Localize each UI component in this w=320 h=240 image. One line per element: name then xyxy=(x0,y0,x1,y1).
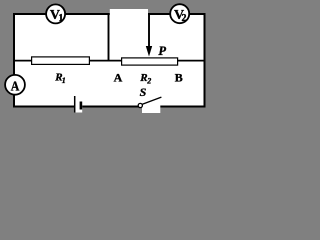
svg-text:S: S xyxy=(140,85,147,99)
ammeter A xyxy=(5,75,25,95)
svg-text:1: 1 xyxy=(58,13,63,24)
svg-text:A: A xyxy=(114,70,123,84)
svg-text:2: 2 xyxy=(146,76,151,85)
voltmeter V1 xyxy=(46,4,65,24)
white gap notch over top wire (potentiometer branch opening) xyxy=(110,9,148,19)
label R2 xyxy=(139,72,151,86)
svg-text:A: A xyxy=(11,79,20,94)
circuit loop (outer wire rectangle, white interior) xyxy=(14,14,205,107)
svg-text:2: 2 xyxy=(182,13,187,24)
potentiometer wiper arrow P xyxy=(146,13,152,57)
switch S xyxy=(138,97,161,113)
svg-text:1: 1 xyxy=(62,76,66,85)
svg-text:B: B xyxy=(175,70,183,84)
battery (cell on bottom wire) xyxy=(74,96,82,113)
svg-text:P: P xyxy=(158,44,166,58)
potentiometer track R2 xyxy=(122,58,178,65)
wire: riser from top-left branch down to node A xyxy=(108,13,110,61)
resistor R1 xyxy=(32,57,90,65)
voltmeter V2 xyxy=(170,4,189,24)
label R1 xyxy=(54,71,66,85)
middle wire (node A rail, y=60.6) xyxy=(14,60,204,62)
